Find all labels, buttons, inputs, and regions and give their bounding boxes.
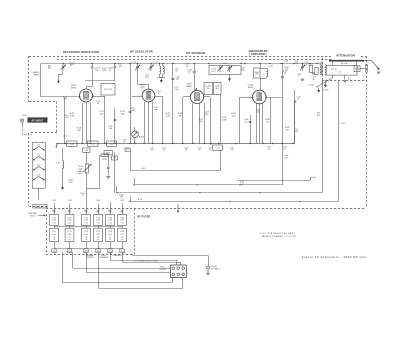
svg-text:100: 100 — [154, 109, 157, 111]
wire group: doubler drops — [192, 103, 194, 143]
svg-text:M102: M102 — [139, 136, 145, 138]
junction cross — [68, 210, 71, 213]
wire T101 right bottom — [162, 74, 164, 77]
wire drop ch4 — [98, 252, 100, 288]
switch contact S103 — [33, 167, 45, 171]
svg-text:C-110: C-110 — [131, 61, 136, 63]
resistor R105 — [309, 66, 312, 73]
svg-text:10: 10 — [199, 150, 201, 152]
svg-text:1 uf: 1 uf — [109, 223, 112, 225]
rf filter chain 2 — [69, 210, 71, 215]
wire to gnd arrow — [59, 74, 64, 76]
svg-text:ATTENUATOR: ATTENUATOR — [336, 54, 355, 58]
inductor L20 box — [83, 148, 90, 152]
wire C114 into V102 — [194, 88, 197, 91]
wire drop ch6 — [122, 252, 124, 262]
svg-text:C-9: C-9 — [37, 175, 40, 177]
svg-text:C-116: C-116 — [222, 63, 227, 65]
svg-text:100: 100 — [120, 197, 123, 199]
label box AF INPUT (inverted) — [28, 117, 48, 122]
svg-text:220: 220 — [207, 88, 210, 90]
transformer T103 — [320, 65, 321, 75]
svg-text:6AK6: 6AK6 — [186, 85, 192, 88]
capacitor C114 — [194, 64, 196, 72]
inductor L21 — [62, 148, 64, 161]
crystal switch ladder rails — [32, 143, 34, 189]
chassis dashed border right — [366, 56, 368, 208]
section label REACTANCE MODULATOR — [61, 50, 101, 55]
vacuum tube V101 — [142, 89, 155, 102]
svg-text:1ST DOUBLER: 1ST DOUBLER — [186, 51, 206, 55]
label box AMPL KEY — [33, 205, 47, 208]
svg-text:10: 10 — [231, 150, 233, 152]
svg-text:3B24: 3B24 — [248, 87, 254, 89]
svg-text:T-100: T-100 — [63, 136, 68, 138]
inner section dashed line — [57, 59, 333, 61]
switch contact S104 — [33, 177, 45, 181]
svg-text:40: 40 — [97, 103, 99, 105]
svg-text:C-26: C-26 — [110, 143, 114, 145]
capacitor C30 — [107, 167, 110, 168]
wire C110 to V101 — [137, 71, 139, 84]
svg-text:C31: C31 — [126, 149, 129, 151]
attenuator coax bar — [329, 60, 364, 62]
transformer T101 — [160, 66, 161, 74]
resistor box R-17 — [101, 84, 115, 96]
resistor R106 — [315, 68, 318, 75]
wire left branch to V100 grid — [41, 96, 80, 98]
wire tank to V103 — [260, 78, 262, 90]
wire loop box mid-left — [99, 155, 101, 188]
bottom value box — [120, 249, 124, 253]
junction cross — [96, 210, 99, 213]
svg-text:L-105: L-105 — [268, 66, 273, 68]
arrow test point on dashed border — [177, 204, 179, 211]
wire pot down to filter — [86, 173, 88, 205]
svg-text:L-49: L-49 — [120, 220, 124, 222]
dashed link from jack — [22, 126, 24, 135]
svg-text:.01: .01 — [209, 150, 212, 152]
wire bus B — [116, 186, 118, 193]
wire group: amplifier drops — [239, 97, 241, 143]
variable capacitor C110 — [135, 64, 141, 71]
svg-text:.01: .01 — [268, 149, 271, 151]
svg-text:TO XMTR: TO XMTR — [211, 268, 220, 270]
svg-text:L-40: L-40 — [52, 220, 56, 222]
wire bus C — [130, 196, 132, 202]
wire T101 bottom link — [158, 77, 166, 79]
svg-text:15: 15 — [186, 66, 188, 68]
connector J100 AF input jack — [20, 119, 23, 122]
rf filter chain 5 — [110, 210, 112, 215]
svg-text:C-83: C-83 — [68, 200, 72, 202]
svg-text:470K: 470K — [102, 70, 107, 72]
svg-text:4 TB-4: 4 TB-4 — [322, 89, 328, 91]
wire V102 top stub — [196, 88, 198, 90]
svg-text:CAPACITY RANGE 5 TO 8 PF: CAPACITY RANGE 5 TO 8 PF — [261, 235, 296, 238]
svg-text:.01: .01 — [283, 149, 286, 151]
arrow center pull — [38, 214, 44, 216]
wire tank top — [260, 68, 267, 70]
ground under C30 — [106, 177, 110, 179]
svg-text:25: 25 — [306, 64, 308, 66]
svg-text:C-84: C-84 — [96, 200, 100, 202]
svg-text:220: 220 — [63, 99, 66, 101]
wire V102 left lead — [183, 96, 190, 98]
wire filter entry C-83 — [69, 204, 71, 211]
wire ladder to amp key — [38, 188, 40, 200]
vacuum tube V100 — [80, 89, 93, 102]
svg-text:AT 100: AT 100 — [341, 62, 349, 65]
svg-text:470: 470 — [109, 251, 112, 253]
arrow ground under C117 — [229, 75, 231, 80]
svg-text:100: 100 — [175, 89, 178, 91]
svg-text:100: 100 — [109, 128, 112, 130]
arrow choke down — [62, 168, 64, 188]
svg-text:+105: +105 — [141, 168, 146, 170]
svg-text:8: 8 — [158, 93, 159, 95]
svg-text:2.2K: 2.2K — [68, 182, 73, 184]
dashed link to ladder — [22, 134, 32, 136]
wire filter entry 5 — [110, 202, 112, 211]
capacitor C23 — [129, 111, 132, 112]
arrow attenuator bottom tap — [344, 75, 346, 79]
svg-text:RF FILTER: RF FILTER — [138, 216, 151, 219]
wire pin drop 1 — [172, 278, 174, 283]
connector P101 — [171, 265, 187, 278]
wire filter entry C-82 — [54, 204, 56, 211]
rf filter box left dashed — [46, 206, 48, 254]
junction cross — [84, 210, 87, 213]
wire top B+ bus — [41, 63, 322, 65]
output connector bracket — [365, 64, 367, 72]
svg-text:.01: .01 — [123, 142, 126, 144]
arrow bus start hook — [56, 144, 59, 147]
potentiometer R46 bias adj — [86, 152, 88, 164]
junction cross — [52, 210, 55, 213]
capacitor C28 on osc line — [172, 78, 175, 79]
variable capacitor C50 — [300, 64, 306, 71]
svg-text:OSC: OSC — [145, 77, 150, 79]
junction cross — [108, 210, 111, 213]
arrow ground under C101 — [58, 74, 60, 82]
svg-text:J-707: J-707 — [341, 123, 346, 125]
svg-text:40: 40 — [188, 72, 190, 74]
section label RF OSCILLATOR — [129, 49, 154, 54]
svg-text:*C-55 IS A SELECTED PART: *C-55 IS A SELECTED PART — [259, 232, 296, 235]
antenna output arrow — [364, 60, 372, 62]
terminal +150V to xmtr — [207, 266, 210, 269]
resistor R47 box — [104, 151, 112, 155]
capacitor C22 — [114, 119, 117, 120]
chassis dashed border bottom — [46, 208, 366, 210]
svg-text:C-65: C-65 — [216, 147, 220, 149]
svg-text:L-21: L-21 — [56, 163, 60, 165]
dashed notch top — [29, 101, 57, 103]
wire left branch vertical — [40, 64, 42, 98]
wire filter entry C-85 — [122, 204, 124, 211]
wire meter stub up — [134, 127, 136, 131]
svg-text:HEATER: HEATER — [113, 254, 122, 257]
svg-text:REACTANCE MODULATOR: REACTANCE MODULATOR — [63, 50, 99, 54]
svg-text:447: 447 — [317, 115, 320, 117]
svg-text:J-708: J-708 — [308, 85, 313, 87]
wire x114 drop — [114, 152, 116, 193]
bottom value box — [52, 249, 56, 253]
svg-text:47: 47 — [245, 121, 247, 123]
dashed notch right — [56, 102, 58, 134]
vacuum tube V102 — [190, 90, 203, 103]
resistor box R114 — [204, 83, 213, 95]
svg-text:1 uf: 1 uf — [53, 223, 56, 225]
svg-text:L-20: L-20 — [84, 150, 88, 152]
wire V103 right lead — [266, 97, 282, 99]
wire V101 right lead — [155, 96, 163, 98]
svg-text:R-1 50: R-1 50 — [331, 68, 337, 70]
svg-text:1 uf: 1 uf — [121, 223, 124, 225]
svg-text:L-48: L-48 — [108, 220, 112, 222]
misc junction dots — [133, 184, 134, 185]
wire bottom harness — [132, 254, 134, 256]
svg-text:RF OSCILLATOR: RF OSCILLATOR — [130, 50, 153, 54]
rf filter box right dashed — [134, 208, 136, 254]
wire V100 right lead — [93, 96, 106, 98]
wire T101 left bottom — [159, 74, 161, 77]
wire meter to bus — [134, 138, 136, 144]
svg-text:C-24: C-24 — [70, 143, 74, 145]
svg-text:100K: 100K — [222, 119, 227, 121]
wire filter entry pot — [86, 205, 88, 210]
arrow ground TB4 — [325, 80, 327, 86]
svg-text:R-48: R-48 — [102, 159, 106, 161]
capacitor C103 — [114, 64, 116, 67]
transformer T102 tank — [260, 64, 262, 69]
ground right cluster 2 — [301, 79, 305, 81]
svg-text:470: 470 — [85, 251, 88, 253]
capacitor C102 — [92, 64, 94, 67]
svg-text:SUPPLY: SUPPLY — [86, 257, 95, 259]
wire V100 top stub — [86, 87, 88, 89]
section label ATTENUATOR — [331, 53, 361, 58]
svg-text:J100: J100 — [22, 115, 26, 117]
meter M102 — [132, 131, 139, 138]
bottom value box — [108, 249, 112, 253]
chassis dashed jog bottom-left — [29, 206, 46, 208]
svg-text:ADJ: ADJ — [79, 172, 83, 175]
svg-text:R-30: R-30 — [312, 177, 316, 179]
svg-text:AMPL KEY: AMPL KEY — [35, 205, 45, 208]
wire main mid bus — [56, 143, 295, 145]
switch contact S101 — [33, 147, 45, 151]
capacitor C65 box — [213, 145, 223, 150]
svg-text:100: 100 — [240, 184, 243, 186]
svg-text:TERM: TERM — [355, 69, 360, 71]
svg-text:6SE5: 6SE5 — [71, 88, 77, 90]
svg-text:FREQ: FREQ — [34, 74, 40, 76]
svg-text:(J-701): (J-701) — [159, 269, 166, 271]
svg-text:C-8: C-8 — [37, 165, 40, 167]
svg-text:C-85: C-85 — [120, 200, 124, 202]
svg-text:C-111: C-111 — [152, 61, 157, 63]
svg-text:C-1.5: C-1.5 — [337, 72, 342, 74]
svg-text:L-43: L-43 — [96, 220, 100, 222]
svg-text:.005: .005 — [295, 63, 298, 65]
variable capacitor C101 — [60, 64, 66, 71]
chassis dashed border left lower — [28, 133, 30, 206]
svg-text:T-1: T-1 — [37, 145, 40, 147]
svg-text:8: 8 — [299, 76, 300, 78]
variable capacitor C116 — [217, 65, 223, 72]
wire drop ch3 — [86, 252, 88, 273]
capacitor C44 plates — [249, 121, 252, 122]
ground under terminal — [206, 273, 209, 275]
bottom value box — [67, 249, 71, 253]
svg-text:L-68: L-68 — [319, 62, 323, 64]
wire screen loop — [130, 151, 132, 171]
variable capacitor C111 — [148, 64, 154, 71]
svg-text:R-33: R-33 — [138, 199, 142, 201]
svg-text:.01: .01 — [185, 150, 188, 152]
svg-text:470: 470 — [53, 251, 56, 253]
arrow ground J708 — [318, 87, 320, 91]
wire jack stub — [22, 122, 24, 126]
wire filter link upper — [54, 226, 122, 228]
svg-text:R-17 1.6K: R-17 1.6K — [104, 89, 112, 91]
svg-text:1 uf: 1 uf — [68, 223, 71, 225]
attenuator network box — [326, 65, 357, 75]
svg-text:SCREEN: SCREEN — [100, 257, 109, 259]
svg-text:10: 10 — [163, 150, 165, 152]
wire drop ch1 — [62, 252, 64, 282]
wire tank bottom — [260, 78, 267, 80]
wire +150V feed — [133, 255, 208, 257]
wire box to output — [360, 68, 366, 70]
box C33 — [112, 156, 118, 160]
wire V102 right lead — [204, 96, 210, 98]
capacitor C24 box — [67, 141, 78, 146]
wire filter link lower — [54, 248, 122, 250]
wire filter entry C-84 — [98, 204, 100, 211]
wire segment y180 — [237, 180, 310, 182]
svg-text:47: 47 — [81, 195, 83, 197]
box C31 — [125, 148, 131, 151]
resistor R48 horizontal — [100, 155, 101, 157]
attenuator box bottom dashed — [322, 80, 367, 82]
wire attenuator to J708 — [332, 75, 334, 78]
bottom value box — [84, 249, 88, 253]
wire drop ch5 — [110, 252, 112, 260]
svg-text:Figure 14 Schematic - 1000: Figure 14 Schematic - 1000 RF Unit — [302, 255, 367, 259]
attenuator box left dashed — [322, 58, 324, 81]
svg-text:470: 470 — [68, 251, 71, 253]
svg-text:C-82: C-82 — [52, 200, 56, 202]
svg-text:( AMPLIFIER ): ( AMPLIFIER ) — [249, 53, 267, 56]
svg-text:1.5K: 1.5K — [166, 115, 171, 117]
capacitor C25 box — [88, 141, 99, 146]
wire drop ch2 — [72, 252, 74, 268]
svg-text:T-2: T-2 — [37, 155, 40, 157]
rf filter chain 3 — [86, 210, 88, 215]
svg-text:.01: .01 — [151, 150, 154, 152]
inductor L105 — [267, 69, 268, 77]
rf filter chain 6 — [122, 210, 124, 215]
svg-text:4.7K: 4.7K — [70, 115, 75, 117]
chassis dashed border top — [29, 56, 366, 58]
wire bar stubs — [332, 62, 334, 66]
svg-text:10: 10 — [312, 79, 314, 81]
junction cross — [120, 210, 123, 213]
wire T101 right top — [162, 64, 164, 66]
attenuator inner load box — [354, 65, 360, 71]
svg-text:PULL: PULL — [30, 215, 36, 217]
wire pin drop 3 — [182, 278, 184, 289]
wire T101 left top — [159, 64, 161, 66]
rf filter box bottom dashed — [46, 254, 135, 256]
variable capacitor C117 — [227, 65, 233, 72]
rf filter chain 1 — [54, 210, 56, 215]
svg-text:100: 100 — [256, 112, 259, 114]
wire bus A — [134, 178, 136, 185]
svg-text:1 uf: 1 uf — [85, 223, 88, 225]
capacitor C48 stub — [282, 64, 284, 77]
svg-text:C33: C33 — [113, 158, 116, 160]
svg-text:1M: 1M — [119, 66, 122, 68]
wire to C65 — [210, 144, 212, 146]
chassis dashed border left upper — [28, 56, 30, 102]
capacitor C47 electrolytic — [294, 101, 297, 102]
vacuum tube V103 — [252, 90, 266, 104]
arrow ground under T101 — [160, 78, 162, 81]
svg-text:470: 470 — [97, 251, 100, 253]
wire group: reactance modulator drops — [64, 97, 66, 144]
switch contact S102 — [33, 157, 45, 161]
capacitor C26 box — [107, 141, 117, 146]
wire V101 left lead — [132, 96, 142, 98]
svg-text:1 uf: 1 uf — [97, 223, 100, 225]
svg-text:L-42: L-42 — [84, 220, 88, 222]
svg-text:470: 470 — [121, 251, 124, 253]
wire group: oscillator drops — [104, 96, 106, 144]
ground antenna stub — [377, 72, 380, 74]
svg-text:L-41: L-41 — [68, 220, 72, 222]
svg-text:47: 47 — [175, 71, 177, 73]
resistor box R115 — [214, 83, 222, 95]
svg-text:C-25: C-25 — [91, 143, 95, 145]
dashed notch bottom — [29, 132, 57, 134]
wire grid link y81 — [85, 80, 115, 82]
bottom value box — [96, 249, 100, 253]
capacitor C52 plates — [312, 73, 315, 74]
wire V101 top stub — [148, 84, 150, 89]
svg-text:1M: 1M — [65, 117, 68, 119]
svg-text:.005: .005 — [295, 131, 298, 133]
svg-text:100: 100 — [176, 79, 179, 81]
svg-text:C-48: C-48 — [284, 61, 288, 63]
tank box L104 with C116 C117 — [209, 66, 241, 75]
svg-text:5-25: 5-25 — [212, 71, 216, 73]
svg-text:AF INPUT: AF INPUT — [31, 120, 44, 123]
wire attenuator left drop — [322, 81, 324, 93]
svg-text:R-2: R-2 — [348, 78, 351, 80]
rf filter chain 4 — [98, 210, 100, 215]
resistor box R102 — [254, 68, 261, 78]
svg-text:25: 25 — [298, 99, 300, 101]
wire V103 left lead — [245, 97, 253, 99]
svg-text:R-105: R-105 — [308, 64, 313, 66]
